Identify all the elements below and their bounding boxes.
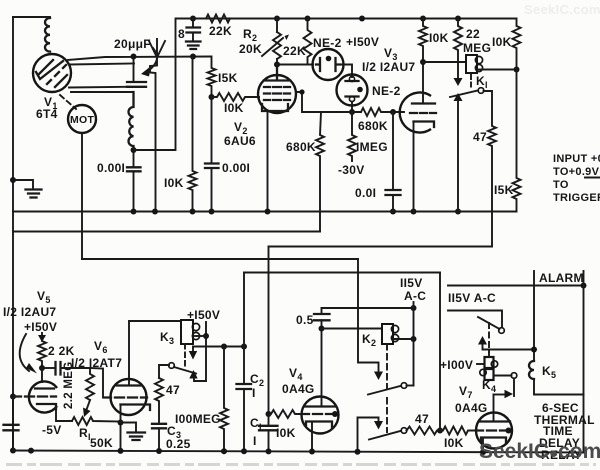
tube V6 grid dashes [104, 396, 147, 398]
wire V5 cathode to R1 [56, 404, 72, 421]
wire top rail [176, 18, 517, 20]
wire lamp2 bottom [351, 102, 353, 113]
tube V3 plate [412, 102, 435, 104]
svg-text:680K: 680K [286, 140, 316, 154]
svg-text:0A4G: 0A4G [455, 401, 488, 415]
capacitor 20uuF variable plates [127, 82, 146, 87]
switch K3 blade [174, 367, 196, 374]
svg-text:-30V: -30V [338, 163, 365, 177]
node bus1 10K line [190, 209, 196, 215]
resistor 15K right [513, 70, 521, 212]
antenna [149, 39, 165, 58]
wire twin-line top pair [68, 57, 211, 65]
wire +150V stem [205, 322, 207, 381]
node K1 feed [420, 59, 426, 65]
node bus-bottom K2 arm [355, 449, 361, 455]
svg-text:0.0I: 0.0I [355, 186, 376, 200]
wire alarm rail right [583, 271, 585, 453]
node 15K bottom [209, 94, 215, 100]
ground GND1 left [13, 180, 33, 189]
wire cap to K2 coil [322, 328, 383, 330]
svg-text:MEG: MEG [463, 41, 491, 55]
wire y56 bus [190, 54, 196, 60]
potentiometer R2 20K [276, 19, 278, 33]
wire K2 coil to 115V stem [393, 338, 414, 340]
capacitor grid left edge [4, 425, 19, 431]
tube V2 plate [264, 65, 290, 81]
inductor L1 top coil [45, 18, 50, 52]
capacitor C3 0.25 [152, 424, 166, 429]
resistor 47 lower [407, 427, 441, 435]
svg-text:22K: 22K [209, 24, 232, 38]
svg-text:47: 47 [415, 412, 429, 426]
node bus-bottom C2 [241, 448, 247, 454]
wire K5 to right rail [534, 379, 584, 395]
arrow ACswitch up [478, 336, 487, 345]
potentiometer R1 50K [72, 417, 121, 425]
resistor 10K lower [440, 427, 476, 435]
svg-text:0.00I: 0.00I [97, 161, 125, 175]
svg-text:II5V A-C: II5V A-C [448, 291, 496, 305]
wire V7 cathode to bus [482, 438, 484, 453]
svg-text:I/2 I2AT7: I/2 I2AT7 [71, 356, 122, 370]
dashed link K3 [184, 344, 186, 367]
coupling capacitor V5-V6 [42, 367, 55, 369]
svg-text:SeekIC.com: SeekIC.com [524, 2, 600, 17]
capacitor 8uF [192, 19, 194, 27]
svg-text:I: I [253, 434, 257, 448]
tube V1 lower diagonal [55, 75, 67, 87]
wire antenna drop [150, 57, 157, 212]
svg-text:47: 47 [166, 383, 180, 397]
svg-text:V4: V4 [289, 366, 303, 382]
relay K4 coil lower [485, 369, 494, 380]
svg-text:K3: K3 [160, 330, 174, 346]
wire twin-line bottom pair [69, 87, 134, 92]
faint bottom band [6, 463, 596, 466]
capacitor C2 [243, 273, 245, 384]
resistor 2.2MEG [86, 368, 94, 400]
node plate supply x423 [420, 16, 426, 22]
wire V7 plate stem [493, 395, 495, 422]
node bus1 15K line [209, 209, 215, 215]
bus2 y231 [13, 231, 320, 233]
tube V7 cathode [481, 438, 506, 444]
resistor 10K vertical [189, 57, 197, 212]
tube V3 envelope arc [400, 93, 431, 133]
relay K5 coil loops [529, 361, 534, 379]
svg-text:I5K: I5K [494, 183, 514, 197]
wire V2 plate node to NE-2 [277, 59, 313, 65]
tube V4 grid dashes with starter dot [302, 413, 332, 415]
wire K3 coil right [194, 335, 206, 337]
wire V2 side to 680K line [296, 92, 321, 112]
resistor 10K grid [212, 93, 260, 101]
wire left rail x=13 [12, 17, 14, 449]
svg-text:K2: K2 [362, 332, 376, 348]
node bus1 V2 cathode [265, 209, 271, 215]
wire feedback jog [134, 19, 176, 151]
svg-text:I/2 I2AU7: I/2 I2AU7 [3, 305, 56, 319]
svg-text:6T4: 6T4 [36, 107, 58, 121]
wire V6 cathode down [120, 405, 122, 452]
tube V6 envelope [111, 379, 147, 415]
ground GND3 V6 [121, 423, 137, 433]
arrow K3 down [192, 347, 194, 352]
motor MOT [68, 105, 96, 133]
tube V5 cathode [37, 404, 56, 409]
tube V1 envelope [33, 54, 71, 92]
tube V1 cathode checkmark [36, 61, 63, 79]
bus bottom [13, 451, 584, 453]
svg-text:CI: CI [250, 416, 262, 432]
svg-text:V5: V5 [37, 289, 51, 305]
svg-text:I/2 I2AU7: I/2 I2AU7 [362, 60, 415, 74]
relay K2 coil [382, 324, 393, 344]
svg-text:ALARM: ALARM [539, 271, 584, 285]
node tank top [131, 54, 137, 60]
wire top-left corner [13, 16, 50, 18]
relay K4 coil upper [485, 357, 494, 368]
node bus-bottom x31 [28, 448, 34, 454]
svg-text:8: 8 [178, 27, 185, 41]
wire MOT stem [82, 133, 358, 259]
svg-text:I0K: I0K [224, 101, 244, 115]
wire K4 to contact [494, 375, 512, 377]
tube V2 envelope [258, 75, 296, 113]
svg-text:0.25: 0.25 [166, 437, 191, 451]
capacitor 0.001 left [127, 167, 141, 171]
tube V7 plate [479, 420, 510, 422]
svg-text:R2: R2 [243, 27, 257, 43]
arrow K3 up and elbow [189, 370, 197, 379]
bus B+ y211 [13, 211, 517, 213]
tube V4 plate [305, 405, 336, 407]
node bus-bottom C3 [156, 448, 162, 454]
arrow 22MEG down [454, 78, 463, 86]
wire 115V switch feed [448, 311, 502, 328]
svg-text:IMEG: IMEG [356, 140, 388, 154]
wire K1 coil to 10K right [477, 69, 517, 71]
bus5 y272 [244, 272, 440, 274]
node bus-bottom C1 [266, 448, 272, 454]
wire 0.5 top to 115V node [322, 307, 414, 309]
svg-text:I: I [252, 386, 256, 400]
svg-text:I00MEG: I00MEG [175, 412, 221, 426]
svg-text:I5K: I5K [218, 71, 238, 85]
wire K2 arm upper from bus4 [358, 259, 379, 371]
svg-text:+I00V: +I00V [440, 358, 473, 372]
svg-text:20K: 20K [239, 42, 262, 56]
svg-text:0.5: 0.5 [296, 313, 314, 327]
ground GND2 under 8uF [192, 33, 194, 42]
svg-text:V6: V6 [94, 339, 108, 355]
resistor 100MEG [220, 347, 228, 452]
wire tank vertical upper [133, 57, 135, 83]
wire K4 top stem [488, 350, 490, 358]
svg-text:TO+0.9V: TO+0.9V [553, 166, 600, 178]
svg-text:I0K: I0K [164, 176, 184, 190]
svg-text:22: 22 [466, 27, 480, 41]
dashed link ACswitch [488, 323, 490, 352]
resistor 1MEG [348, 112, 356, 161]
tube V7 grid dashes with starter dot [476, 429, 506, 431]
node bus-bottom V6 cathode [118, 448, 124, 454]
inductor L2 tank coil [129, 92, 134, 146]
arrow 20uuF adjust [148, 48, 157, 71]
node coupling [39, 365, 45, 371]
node top rail x277 [274, 16, 280, 22]
tube V6 plate [117, 384, 141, 386]
node bus1 antenna line [152, 209, 158, 215]
wire node to K1 coil [423, 61, 466, 63]
svg-text:V7: V7 [459, 384, 473, 400]
curved arrow to V5 [20, 334, 29, 371]
resistor 680K horizontal [321, 108, 404, 116]
resistor 10K left of 22MEG [419, 19, 427, 63]
tube V1 grid dashes [47, 65, 66, 84]
svg-text:-5V: -5V [42, 423, 62, 437]
tube V1 plate diagonal [38, 60, 53, 75]
node 680K junction [349, 109, 355, 115]
capacitor 0.001 right [205, 164, 219, 169]
svg-text:K5: K5 [542, 364, 556, 380]
resistor 15K [208, 57, 216, 98]
svg-text:50K: 50K [90, 436, 113, 450]
resistor 47 K3 [155, 378, 163, 423]
lamp NE-2 second [337, 75, 368, 106]
wire V2 cathode to bus [267, 111, 269, 212]
node top rail x307 [305, 16, 311, 22]
svg-text:I0K: I0K [429, 31, 449, 45]
lamp NE-2 first [313, 49, 344, 80]
svg-text:A-C: A-C [404, 289, 426, 303]
svg-text:INPUT +0: INPUT +0 [553, 153, 600, 165]
tube V2 cathode [262, 104, 288, 111]
node V3 grid [390, 109, 396, 115]
wire K1 contact to 47 [484, 91, 497, 247]
svg-text:SeekIC●com: SeekIC●com [479, 440, 600, 463]
svg-text:NE-2: NE-2 [372, 84, 401, 98]
wire x440 drop [439, 273, 441, 431]
svg-text:MOT: MOT [70, 114, 95, 126]
switch K2 lower blade [369, 431, 401, 440]
node bus-bottom V4 cathode [309, 449, 315, 455]
dashed mechanical link V1-MOT [60, 95, 76, 109]
tube V4 cathode [306, 422, 332, 428]
wire ALARM feed line [448, 285, 584, 287]
bus4 y259 [82, 258, 358, 260]
switch ACpower blade [478, 317, 500, 329]
wire K2 arm lower from bus [358, 418, 379, 452]
wire C1 line [268, 247, 270, 426]
relay K3 coil [181, 320, 193, 344]
wire tank to bus [133, 146, 135, 167]
svg-text:I0K: I0K [444, 436, 464, 450]
switch K1 blade [450, 91, 478, 98]
resistor 10K V4 grid [269, 410, 303, 418]
capacitor 0.01 [392, 112, 394, 189]
tube V5 plate [35, 387, 54, 389]
node bus1 V3 cathode [411, 209, 417, 215]
svg-text:NE-2: NE-2 [313, 36, 342, 50]
node bus-bottom V7 cathode [480, 449, 486, 455]
wire lamp1 to lamp2 [340, 65, 352, 78]
wire alarm rail left [533, 271, 535, 361]
svg-text:+I50V: +I50V [24, 320, 57, 334]
bus3 y246 [269, 246, 493, 248]
wire arrow to K5 node [483, 344, 535, 350]
wire left rail to bus [12, 397, 14, 451]
arrow V7 starter [505, 390, 514, 398]
wire K4 contact drop [513, 378, 515, 396]
node bus-bottom left rail [10, 448, 16, 454]
resistor 10K right top [513, 19, 521, 70]
resistor 2.2K [38, 341, 46, 368]
svg-text:TRIGGER: TRIGGER [553, 192, 600, 204]
svg-text:0.00I: 0.00I [222, 161, 250, 175]
svg-text:20μμF: 20μμF [114, 37, 151, 51]
node bus1 0.01 line [390, 209, 396, 215]
wire to V6 grid [90, 368, 103, 398]
wire V3 cathode to bus [413, 122, 415, 212]
node L2 bottom [131, 147, 137, 153]
wire y346 [193, 346, 244, 348]
wire 15K line down [211, 97, 213, 163]
resistor 22K top [206, 15, 230, 23]
wire 2.2K to V5 plate [41, 368, 43, 382]
switch K2 upper blade [368, 386, 401, 395]
wire V4 cathode to bus [311, 422, 313, 452]
svg-text:I0K: I0K [276, 426, 296, 440]
wire K3 common [159, 365, 169, 378]
dashed link K2 [386, 344, 388, 432]
node top rail x362 [359, 16, 365, 22]
svg-text:RI: RI [79, 426, 91, 442]
svg-text:TO: TO [553, 179, 569, 191]
arrow +150V to 2.2K [41, 333, 43, 339]
wire 115V stem [413, 302, 415, 386]
svg-text:I0K: I0K [492, 35, 512, 49]
svg-text:6AU6: 6AU6 [224, 134, 256, 148]
resistor 22K second [304, 19, 312, 65]
relay K1 coil [466, 55, 477, 73]
tube V3 grid dashes [410, 112, 436, 114]
dashed link K1 [470, 75, 472, 89]
capacitor C1 [259, 426, 278, 431]
svg-text:+I50V: +I50V [346, 35, 379, 49]
node bus1 tank line [131, 209, 137, 215]
svg-text:47: 47 [473, 130, 487, 144]
wire contact to 115V stem [407, 385, 414, 387]
tube V6 cathode [121, 405, 151, 411]
node top rail x193 [190, 16, 196, 22]
svg-text:680K: 680K [358, 119, 388, 133]
wire K1 left leg [457, 100, 459, 212]
node top rail x458 [455, 16, 461, 22]
svg-text:0A4G: 0A4G [282, 382, 315, 396]
node bus1 K1 arm [455, 209, 461, 215]
resistor 22MEG [454, 19, 462, 80]
resistor 680K vertical [316, 112, 324, 232]
arrow 2.2MEG wiper [86, 400, 90, 411]
capacitor 0.5 [321, 308, 323, 314]
tube V4 envelope [302, 397, 339, 434]
tube V5 envelope arc [29, 382, 57, 413]
tube V5 grid dashes [10, 394, 16, 400]
node bus-bottom 100MEG [221, 448, 227, 454]
tube V3 cathode [414, 122, 435, 128]
tube V2 grids dashes [264, 87, 290, 100]
svg-text:22K: 22K [283, 44, 306, 58]
arrow K1 up [454, 93, 463, 101]
svg-text:II5V: II5V [400, 276, 423, 290]
tube V7 envelope [476, 413, 512, 449]
